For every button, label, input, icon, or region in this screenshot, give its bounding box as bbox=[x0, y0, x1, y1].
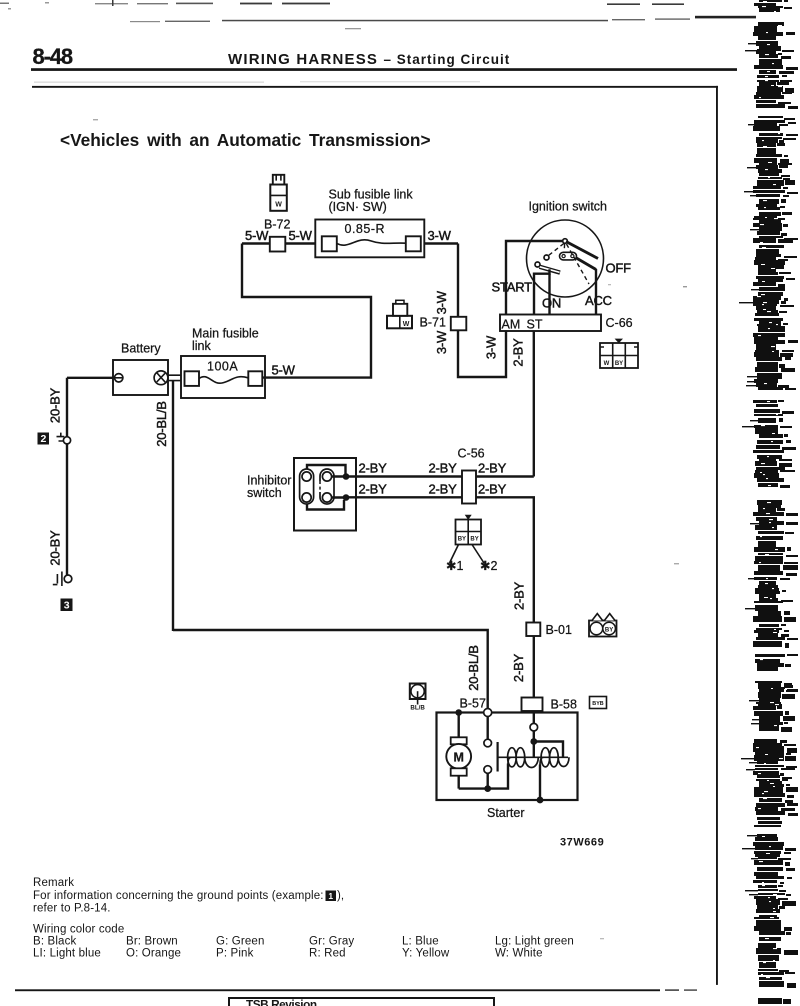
svg-text:B-71: B-71 bbox=[420, 316, 446, 330]
right-edge scanner binding band bbox=[739, 0, 798, 1004]
switch contact upper bbox=[484, 739, 492, 747]
svg-text:<Vehicles with an Automatic Tr: <Vehicles with an Automatic Transmission… bbox=[60, 130, 431, 150]
svg-text:G: Green: G: Green bbox=[216, 936, 265, 948]
svg-text:link: link bbox=[192, 339, 212, 353]
motor brush top bbox=[451, 737, 467, 744]
wire: ST contact leg bbox=[534, 269, 550, 314]
svg-text:(IGN· SW): (IGN· SW) bbox=[329, 200, 387, 214]
motor bottom wire bbox=[458, 776, 460, 789]
wire: 20-BL/B run to starter B-57 bbox=[173, 630, 488, 713]
svg-text:2-BY: 2-BY bbox=[478, 461, 507, 476]
svg-text:8-48: 8-48 bbox=[33, 44, 73, 69]
wire: pivot feed from AM bbox=[506, 241, 565, 315]
connector B-58 (in-line box) bbox=[522, 698, 543, 712]
battery positive terminal bbox=[154, 371, 168, 385]
switch contact lower bbox=[484, 766, 492, 774]
connector B-71 (in-line box) bbox=[451, 317, 467, 331]
solenoid plunger bar bbox=[497, 742, 499, 772]
ignition pivot bbox=[563, 239, 568, 244]
wire: ON leg bbox=[548, 274, 550, 315]
svg-text:3-W: 3-W bbox=[428, 228, 452, 243]
svg-text:O: Orange: O: Orange bbox=[126, 948, 181, 960]
svg-text:ON: ON bbox=[542, 296, 561, 311]
wire: coil bridge to right bbox=[534, 742, 563, 758]
svg-text:1: 1 bbox=[328, 891, 333, 901]
page right border line bbox=[716, 86, 718, 985]
svg-text:For information concerning the: For information concerning the ground po… bbox=[33, 890, 324, 902]
svg-text:Y: Yellow: Y: Yellow bbox=[402, 948, 450, 960]
wire: 2-BY from ST terminal down to C-56 rail bbox=[533, 331, 535, 477]
ignition lever to OFF bbox=[566, 242, 598, 259]
svg-text:WIRING HARNESS – Starting Circ: WIRING HARNESS – Starting Circuit bbox=[228, 51, 510, 68]
svg-text:LI: Light blue: LI: Light blue bbox=[33, 948, 101, 960]
svg-text:refer to P.8-14.: refer to P.8-14. bbox=[33, 903, 111, 915]
connector icon BYB (near B-58) bbox=[590, 697, 607, 709]
svg-text:BYB: BYB bbox=[592, 701, 603, 707]
wire: 20-BL/B from battery positive down bbox=[172, 381, 174, 631]
svg-text:ST: ST bbox=[527, 317, 543, 331]
inhibitor contacts left bbox=[302, 472, 311, 481]
wire: 100A to corner, up, left, up to top rail bbox=[242, 244, 371, 378]
svg-text:Gr: Gray: Gr: Gray bbox=[309, 936, 354, 948]
svg-text:R: Red: R: Red bbox=[309, 948, 346, 960]
TSB revision box bbox=[229, 998, 494, 1006]
svg-text:W: W bbox=[604, 361, 610, 367]
inhibitor switch box bbox=[294, 458, 356, 531]
inhibitor contacts right bbox=[322, 472, 331, 481]
main fusible link box bbox=[181, 356, 265, 398]
wire: 2-BY B-01 to B-58 bbox=[533, 636, 535, 698]
motor brush bottom bbox=[451, 768, 467, 775]
fusible link left terminal bbox=[185, 371, 200, 386]
svg-text:5-W: 5-W bbox=[289, 228, 313, 243]
wire: 20-BY down from battery minus bbox=[66, 378, 68, 575]
pull-in coil bbox=[508, 748, 539, 768]
ignition lever capsule to ACC bbox=[576, 258, 597, 270]
junction dot bottom bbox=[343, 494, 350, 501]
svg-text:✱2: ✱2 bbox=[480, 559, 497, 573]
svg-text:Ignition switch: Ignition switch bbox=[529, 200, 608, 214]
connector B-57 terminal circle bbox=[484, 709, 492, 717]
ignition ST lever bar bbox=[540, 267, 561, 273]
ground terminal 3 at bottom of 20-BY bbox=[64, 575, 72, 583]
connector B-71 mate icon bbox=[387, 300, 412, 328]
inhibitor right pole capsule bbox=[320, 469, 334, 504]
connector C-66 mate icon bbox=[600, 339, 638, 368]
svg-text:37W669: 37W669 bbox=[560, 837, 604, 849]
svg-text:switch: switch bbox=[247, 486, 282, 500]
node: ground grommet 2 on 20-BY wire bbox=[63, 437, 70, 444]
fusible link element (wavy) bbox=[199, 377, 248, 384]
sub link left terminal bbox=[322, 236, 337, 251]
top rail: 5-W wire through B-72 bbox=[242, 242, 458, 244]
svg-text:B-57: B-57 bbox=[460, 697, 486, 711]
battery box bbox=[113, 360, 168, 395]
wiring color code table bbox=[33, 936, 574, 960]
svg-text:2-BY: 2-BY bbox=[359, 481, 388, 496]
wire: battery negative lead bbox=[67, 377, 114, 379]
junction dot starter bottom bbox=[537, 797, 544, 804]
sub link element (wavy) bbox=[337, 240, 406, 245]
svg-text:2-BY: 2-BY bbox=[359, 461, 388, 476]
svg-text:ACC: ACC bbox=[585, 293, 612, 308]
connector B-72 (in-line box) bbox=[270, 237, 286, 252]
hold-in coil bbox=[540, 748, 569, 767]
svg-text:BY: BY bbox=[615, 361, 623, 367]
svg-text:✱1: ✱1 bbox=[446, 559, 463, 573]
svg-text:2-BY: 2-BY bbox=[429, 481, 458, 496]
svg-text:3-W: 3-W bbox=[434, 330, 449, 354]
svg-text:B: Black: B: Black bbox=[33, 936, 76, 948]
svg-text:),: ), bbox=[337, 890, 344, 902]
svg-text:2-BY: 2-BY bbox=[511, 653, 526, 682]
svg-text:20-BL/B: 20-BL/B bbox=[154, 401, 169, 447]
motor M bbox=[446, 744, 471, 769]
svg-text:2: 2 bbox=[40, 433, 46, 445]
svg-text:Battery: Battery bbox=[121, 342, 161, 356]
connector B-01 mate icon bbox=[589, 614, 617, 637]
svg-text:B-58: B-58 bbox=[551, 698, 577, 712]
fusible link right terminal bbox=[248, 371, 262, 386]
svg-text:2-BY: 2-BY bbox=[478, 481, 507, 496]
connector variant icon BY/BY below C-56 bbox=[450, 515, 485, 563]
wire: B-57 to switch contact bbox=[487, 717, 489, 740]
svg-text:Br: Brown: Br: Brown bbox=[126, 936, 178, 948]
ignition contact circles ST side bbox=[544, 255, 549, 260]
inhibitor internal wire top bbox=[307, 465, 346, 474]
svg-text:W: White: W: White bbox=[495, 948, 543, 960]
svg-text:BY: BY bbox=[458, 537, 466, 543]
svg-text:M: M bbox=[453, 750, 463, 764]
wire: ACC leg down bbox=[595, 269, 597, 315]
svg-text:B-72: B-72 bbox=[264, 218, 290, 232]
connector C-66 box AM/ST bbox=[500, 315, 601, 332]
svg-text:100A: 100A bbox=[207, 360, 238, 374]
svg-text:L: Blue: L: Blue bbox=[402, 936, 439, 948]
wire: hold-in coil to ground rail bbox=[539, 765, 541, 801]
solenoid core line bbox=[498, 756, 568, 758]
svg-text:BY: BY bbox=[605, 627, 613, 633]
starter box bbox=[437, 713, 578, 801]
svg-text:B-01: B-01 bbox=[546, 623, 572, 637]
svg-text:20-BY: 20-BY bbox=[48, 530, 63, 566]
ignition switch circle bbox=[527, 220, 604, 297]
svg-text:BL/B: BL/B bbox=[410, 705, 425, 712]
svg-text:20-BY: 20-BY bbox=[48, 387, 63, 423]
svg-text:AM: AM bbox=[502, 317, 521, 331]
wire: B-58 into solenoid bbox=[533, 711, 535, 723]
svg-text:OFF: OFF bbox=[606, 261, 632, 276]
svg-text:Wiring color code: Wiring color code bbox=[33, 924, 124, 936]
wire: contact stubs to junctions bbox=[332, 477, 346, 498]
svg-text:P: Pink: P: Pink bbox=[216, 948, 254, 960]
junction dot starter top-left bbox=[455, 709, 462, 716]
wire: contact to coil junction bbox=[533, 731, 535, 757]
svg-text:START: START bbox=[492, 280, 533, 295]
svg-text:0.85-R: 0.85-R bbox=[345, 222, 386, 236]
battery negative terminal bbox=[115, 374, 123, 382]
ground icon BL/B bbox=[410, 684, 426, 712]
svg-text:2-BY: 2-BY bbox=[510, 338, 525, 367]
svg-text:C-56: C-56 bbox=[458, 447, 485, 461]
connector C-56 (in-line) bbox=[462, 471, 476, 504]
svg-text:3-W: 3-W bbox=[483, 335, 498, 359]
ground point label 2 (black square) bbox=[38, 433, 50, 445]
svg-text:C-66: C-66 bbox=[606, 316, 633, 330]
bottom rule bbox=[15, 989, 660, 991]
sub fusible link box bbox=[315, 220, 424, 258]
svg-text:Remark: Remark bbox=[33, 877, 74, 889]
svg-text:2-BY: 2-BY bbox=[511, 581, 526, 610]
svg-text:20-BL/B: 20-BL/B bbox=[466, 645, 481, 691]
header rule 2 bbox=[32, 86, 718, 88]
inhibitor internal wire bottom bbox=[307, 500, 344, 510]
svg-text:TSB Revision: TSB Revision bbox=[246, 998, 317, 1006]
svg-text:3: 3 bbox=[64, 599, 70, 611]
ground point label 3 (black square) bbox=[61, 599, 73, 612]
sub link right terminal bbox=[406, 236, 421, 251]
svg-text:3-W: 3-W bbox=[434, 290, 449, 314]
svg-text:5-W: 5-W bbox=[272, 363, 296, 378]
starter bottom rail bbox=[459, 764, 508, 789]
ignition dashed throw lines bbox=[549, 244, 590, 285]
header rule 1 bbox=[31, 68, 737, 71]
connector B-72 mate icon bbox=[270, 175, 287, 211]
solenoid terminal contact bbox=[530, 723, 538, 731]
wire: battery positive to main fusible link (double) bbox=[168, 375, 186, 380]
motor M feed wire top bbox=[458, 713, 460, 738]
ignition capsule contact bbox=[560, 252, 577, 260]
svg-text:Starter: Starter bbox=[487, 806, 525, 820]
wire: 2-BY rail top (inhibitor to ST riser) bbox=[346, 475, 534, 477]
svg-text:BY: BY bbox=[470, 537, 478, 543]
svg-text:W: W bbox=[275, 202, 282, 209]
svg-text:Lg: Light green: Lg: Light green bbox=[495, 936, 574, 948]
svg-text:W: W bbox=[403, 321, 410, 328]
connector B-01 (in-line box) bbox=[526, 623, 540, 637]
wire: lower contact to motor rail bbox=[487, 773, 489, 788]
wire: 3-W down through B-71 bbox=[458, 244, 506, 378]
wire: 2-BY rail bottom (inhibitor to B-01 drop) bbox=[346, 497, 534, 623]
junction dot coils bbox=[530, 738, 537, 745]
svg-text:2-BY: 2-BY bbox=[429, 461, 458, 476]
ground mark near grommet 2 bbox=[57, 433, 65, 441]
junction dot top bbox=[343, 473, 350, 480]
inhibitor left pole capsule bbox=[300, 469, 314, 504]
junction dot on bottom rail bbox=[484, 785, 491, 792]
